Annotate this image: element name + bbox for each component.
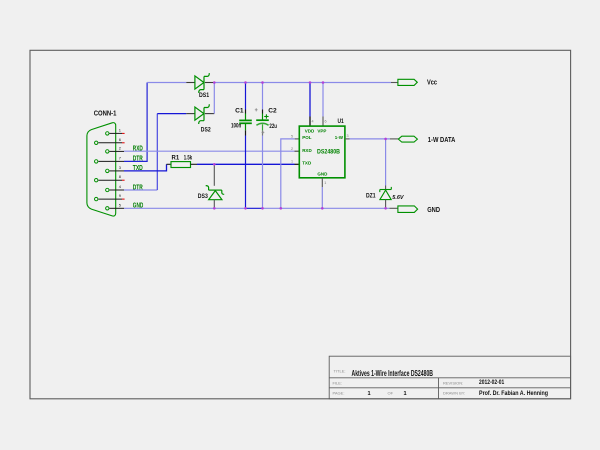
wire DTR(pin7) to DS1 xyxy=(124,83,147,162)
wire GND rail left xyxy=(124,207,246,209)
page numbers xyxy=(368,391,407,397)
svg-text:3: 3 xyxy=(347,134,349,138)
wire GND terminal stub xyxy=(390,207,398,209)
wire RXD xyxy=(124,150,295,152)
zener DZ1 bottom stub xyxy=(385,200,387,209)
U1 GND pin stub xyxy=(321,178,323,187)
wire VCC rail right segment xyxy=(214,82,391,84)
svg-text:Vcc: Vcc xyxy=(427,80,437,87)
U1 VDD pin stub xyxy=(309,117,311,127)
svg-text:2: 2 xyxy=(291,147,293,151)
wire VCC terminal stub xyxy=(391,82,398,84)
svg-text:1: 1 xyxy=(324,181,326,185)
terminal VCC xyxy=(398,79,417,85)
wire U1 GND to rail xyxy=(321,187,323,208)
net labels at connector xyxy=(133,146,144,210)
diode DS3 (schottky) xyxy=(206,186,225,200)
wire DTR(pin4) horizontal xyxy=(124,189,157,191)
capacitor C2 (polarized) xyxy=(256,114,269,131)
title block labels xyxy=(333,368,466,395)
capacitor C1 wires xyxy=(245,83,247,209)
svg-text:100n: 100n xyxy=(231,123,241,130)
svg-text:POL: POL xyxy=(302,135,312,140)
svg-text:R1: R1 xyxy=(172,156,180,162)
svg-text:VPP: VPP xyxy=(317,128,326,133)
unconnected pin red tips xyxy=(122,133,125,199)
resistor R1 left lead xyxy=(167,163,172,165)
svg-text:5: 5 xyxy=(291,135,293,139)
zener DZ1 xyxy=(380,187,392,200)
wire DTR(pin4) vertical xyxy=(156,114,158,190)
capacitor C2 wires xyxy=(262,83,264,209)
svg-text:DS2480B: DS2480B xyxy=(317,149,340,156)
junction dots xyxy=(213,81,387,209)
svg-text:Aktives 1-Wire Interface DS248: Aktives 1-Wire Interface DS2480B xyxy=(352,369,434,378)
wire DS3 bottom stub xyxy=(213,200,215,209)
resistor R1 xyxy=(171,162,191,168)
svg-text:DS2: DS2 xyxy=(201,127,211,134)
svg-text:C1: C1 xyxy=(235,108,244,115)
svg-text:Prof. Dr. Fabian A. Henning: Prof. Dr. Fabian A. Henning xyxy=(479,390,548,397)
svg-text:1: 1 xyxy=(291,159,293,163)
diode DS1 leads xyxy=(186,82,214,84)
svg-text:2012-02-01: 2012-02-01 xyxy=(479,379,505,386)
connector pin numbers xyxy=(119,127,122,207)
capacitor C1 xyxy=(239,114,252,131)
svg-text:1: 1 xyxy=(404,391,407,397)
wire VPP to VCC rail xyxy=(322,83,324,117)
sheet frame xyxy=(30,50,571,399)
wire DS2 anode xyxy=(157,113,186,115)
svg-text:DZ1: DZ1 xyxy=(366,193,376,200)
svg-text:REVISION:: REVISION: xyxy=(443,380,463,385)
U1 VPP pin stub xyxy=(322,117,324,127)
wire DS3 top stub xyxy=(213,164,215,186)
wire 1-W terminal stub xyxy=(390,138,398,140)
svg-text:TITLE:: TITLE: xyxy=(334,368,346,373)
connector CONN-1 outline xyxy=(87,123,116,216)
U1 POL pin stub xyxy=(295,138,300,140)
U1 1-W pin stub xyxy=(345,138,350,140)
diode DS1 (schottky) xyxy=(195,73,209,93)
wire DS2 cathode to VCC rail xyxy=(213,83,215,114)
svg-text:1: 1 xyxy=(368,391,371,397)
svg-text:TXD: TXD xyxy=(302,160,312,165)
svg-text:6: 6 xyxy=(325,120,327,124)
wire TXD from pin3 xyxy=(124,164,167,171)
diode DS2 (schottky) xyxy=(195,104,209,124)
wire GND rail C1-C2 xyxy=(246,207,263,209)
wire VDD to VCC rail xyxy=(309,83,311,117)
U1 RXD pin stub xyxy=(295,150,300,152)
svg-text:4: 4 xyxy=(312,120,314,124)
svg-text:GND: GND xyxy=(427,207,440,214)
svg-text:OF: OF xyxy=(388,391,394,396)
svg-text:C2: C2 xyxy=(268,108,277,115)
diode DS2 leads xyxy=(186,113,214,115)
connector pin circles xyxy=(95,132,110,210)
wire POL to GND xyxy=(281,139,295,208)
svg-text:PAGE:: PAGE: xyxy=(333,391,345,396)
svg-text:GND: GND xyxy=(317,171,328,176)
svg-text:22u: 22u xyxy=(269,123,277,130)
terminal GND xyxy=(398,206,418,213)
connector pin stubs xyxy=(98,133,124,208)
capacitor C2 plus sign xyxy=(264,114,268,118)
U1 TXD pin stub xyxy=(295,163,300,165)
terminal 1-W DATA xyxy=(398,136,417,142)
svg-text:1-W: 1-W xyxy=(335,135,344,140)
svg-text:VDD: VDD xyxy=(305,128,315,133)
svg-text:DRAWN BY:: DRAWN BY: xyxy=(443,391,465,396)
op-amp U1 box (DS2480B) xyxy=(299,126,345,178)
wire 1-W data xyxy=(350,138,391,140)
U1 pin numbers xyxy=(291,120,349,186)
resistor R1 right lead xyxy=(191,163,198,165)
wire DZ1 branch xyxy=(385,139,387,186)
wire VCC rail left segment xyxy=(147,82,186,84)
wire TXD to U1 xyxy=(197,163,295,165)
title block xyxy=(329,356,570,399)
zener DZ1 top stub xyxy=(385,186,387,190)
svg-text:1-W DATA: 1-W DATA xyxy=(428,137,456,144)
svg-text:RXD: RXD xyxy=(302,148,312,153)
capacitor C2 polarity tick xyxy=(255,108,264,134)
svg-text:U1: U1 xyxy=(338,118,345,125)
svg-text:DS3: DS3 xyxy=(198,193,208,200)
svg-text:CONN-1: CONN-1 xyxy=(94,111,117,118)
svg-text:FILE:: FILE: xyxy=(333,380,343,385)
svg-text:DS1: DS1 xyxy=(199,92,209,99)
wire GND rail right xyxy=(263,207,390,209)
svg-text:5.6V: 5.6V xyxy=(392,195,404,201)
svg-text:1.5k: 1.5k xyxy=(184,156,193,162)
